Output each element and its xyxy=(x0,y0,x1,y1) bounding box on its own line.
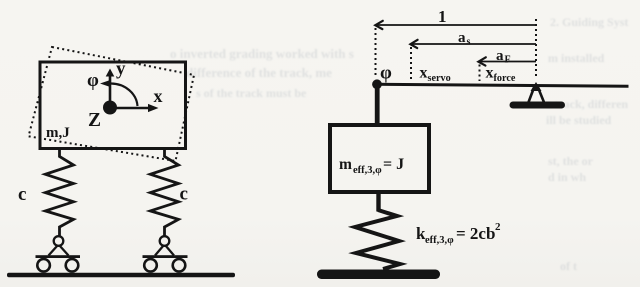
x axis xyxy=(110,107,150,110)
svg-text:ill be studied: ill be studied xyxy=(546,113,612,127)
beam / lever line xyxy=(377,84,629,86)
origin dot Z xyxy=(103,101,117,115)
wheels 1 xyxy=(37,259,50,272)
svg-text:m,J: m,J xyxy=(46,125,70,141)
roller support 2 xyxy=(160,236,170,246)
svg-text:m installed: m installed xyxy=(548,51,605,65)
svg-text:x: x xyxy=(154,86,163,106)
dotted extension line (support, x=536) xyxy=(535,19,537,79)
svg-text:c: c xyxy=(180,184,188,205)
effective mass rectangle xyxy=(330,125,429,192)
svg-text:a: a xyxy=(458,30,466,46)
phi rotation arc xyxy=(111,84,138,107)
svg-text:2. Guiding Syst: 2. Guiding Syst xyxy=(550,15,628,29)
y axis xyxy=(109,75,112,107)
svg-text:1: 1 xyxy=(438,7,447,26)
support bar xyxy=(510,102,566,109)
ground bar (right) xyxy=(317,270,440,280)
svg-text:x: x xyxy=(486,65,494,82)
svg-text:eff,3,φ: eff,3,φ xyxy=(353,165,382,176)
svg-text:2: 2 xyxy=(495,221,501,233)
left spring 1 xyxy=(45,149,73,237)
roller support 1 xyxy=(54,236,64,246)
dimension line a_F xyxy=(479,61,536,63)
dotted rotated rectangle (displaced body outline) xyxy=(29,47,195,161)
svg-text:eff,3,φ: eff,3,φ xyxy=(425,235,454,246)
svg-text:difference of the track, me: difference of the track, me xyxy=(186,65,332,80)
svg-text:o inverted grading worked with: o inverted grading worked with s xyxy=(170,46,354,61)
svg-text:φ: φ xyxy=(380,63,392,84)
pivot dot phi xyxy=(372,79,382,89)
svg-text:d in wh: d in wh xyxy=(548,170,586,184)
dimension line 1 xyxy=(376,24,536,26)
svg-text:st, the or: st, the or xyxy=(548,154,594,168)
solid mass rectangle m,J xyxy=(40,62,186,149)
svg-text:m: m xyxy=(339,156,352,173)
dotted extension line (pivot, x=375.5) xyxy=(375,28,377,77)
svg-text:c: c xyxy=(18,184,26,205)
effective spring xyxy=(355,210,400,269)
svg-text:servo: servo xyxy=(428,73,451,84)
dotted extension line (servo, x=411) xyxy=(410,47,412,81)
svg-text:F: F xyxy=(505,55,511,66)
dotted extension line (force, x=479.5) xyxy=(479,65,481,82)
ground line (left) xyxy=(7,273,235,278)
svg-text:a: a xyxy=(496,48,504,64)
dimension line a_s xyxy=(411,43,536,45)
wheels 2 xyxy=(144,259,157,272)
faint bleed-through page text xyxy=(170,15,628,273)
svg-text:force: force xyxy=(494,73,516,84)
svg-text:= J: = J xyxy=(383,156,404,173)
svg-text:y: y xyxy=(116,59,126,80)
svg-text:s of the track must be: s of the track must be xyxy=(196,86,307,100)
link rod from pivot to mass xyxy=(375,84,380,125)
left spring 2 xyxy=(150,149,178,237)
lower stub from mass to spring xyxy=(376,192,380,212)
triangle support at right xyxy=(531,82,542,91)
svg-text:φ: φ xyxy=(87,70,99,91)
svg-text:x: x xyxy=(420,65,428,82)
svg-text:Z: Z xyxy=(88,110,101,131)
svg-text:= 2cb: = 2cb xyxy=(456,224,495,243)
svg-text:s: s xyxy=(467,37,471,48)
svg-text:of t: of t xyxy=(560,259,577,273)
